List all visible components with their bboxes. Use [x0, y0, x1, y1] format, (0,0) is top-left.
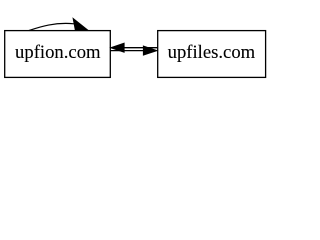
svg-text:upfiles.com: upfiles.com [168, 42, 256, 63]
svg-text:upfion.com: upfion.com [15, 42, 101, 63]
